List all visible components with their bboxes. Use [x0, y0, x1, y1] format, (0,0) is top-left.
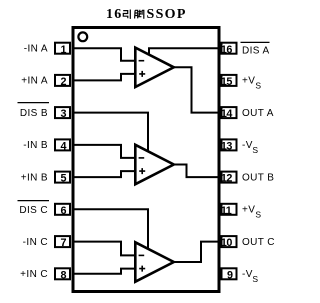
svg-text:DIS B: DIS B — [20, 108, 48, 119]
svg-text:+V: +V — [242, 76, 255, 87]
svg-text:DIS A: DIS A — [242, 46, 270, 57]
svg-text:+IN A: +IN A — [21, 76, 48, 87]
svg-text:5: 5 — [60, 173, 66, 185]
svg-text:-IN B: -IN B — [23, 140, 48, 151]
svg-text:+IN B: +IN B — [21, 172, 48, 183]
svg-text:-IN A: -IN A — [24, 43, 48, 54]
svg-text:8: 8 — [60, 269, 66, 281]
svg-text:4: 4 — [60, 141, 66, 153]
svg-text:S: S — [252, 274, 258, 284]
svg-text:3: 3 — [60, 108, 66, 120]
svg-text:S: S — [252, 145, 258, 155]
svg-text:9: 9 — [227, 269, 233, 281]
svg-text:15: 15 — [221, 76, 233, 88]
svg-text:OUT C: OUT C — [242, 237, 275, 248]
svg-text:16: 16 — [106, 7, 123, 22]
svg-text:16: 16 — [221, 44, 233, 56]
svg-text:S: S — [255, 81, 261, 91]
svg-text:13: 13 — [221, 141, 233, 153]
svg-text:+V: +V — [242, 205, 255, 216]
svg-text:S: S — [255, 210, 261, 220]
svg-text:DIS C: DIS C — [19, 205, 48, 216]
svg-text:11: 11 — [221, 205, 232, 217]
svg-text:OUT A: OUT A — [242, 108, 274, 119]
svg-text:10: 10 — [221, 237, 233, 249]
svg-text:OUT B: OUT B — [242, 172, 274, 183]
svg-text:-V: -V — [242, 269, 253, 280]
svg-text:2: 2 — [60, 76, 66, 88]
svg-text:1: 1 — [60, 44, 66, 56]
svg-text:14: 14 — [221, 108, 233, 120]
svg-text:+IN C: +IN C — [20, 269, 48, 280]
svg-text:-IN C: -IN C — [23, 237, 48, 248]
svg-text:-V: -V — [242, 140, 253, 151]
svg-text:6: 6 — [60, 205, 66, 217]
svg-text:7: 7 — [60, 237, 66, 249]
svg-text:12: 12 — [221, 173, 233, 185]
svg-text:SSOP: SSOP — [147, 7, 187, 22]
